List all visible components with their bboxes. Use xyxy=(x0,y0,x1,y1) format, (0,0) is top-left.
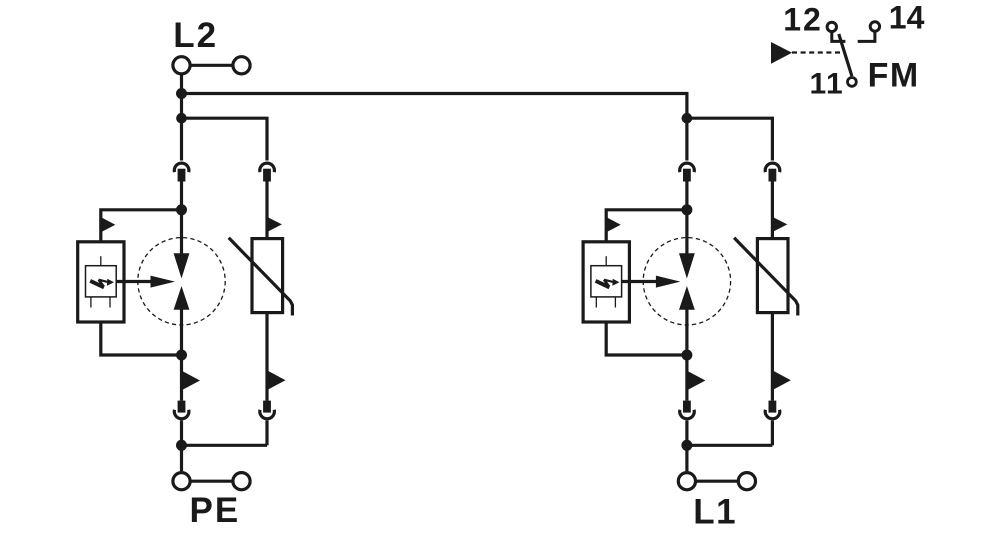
svg-text:14: 14 xyxy=(889,0,925,36)
svg-text:L2: L2 xyxy=(173,16,218,55)
svg-text:12: 12 xyxy=(783,2,823,38)
svg-text:L1: L1 xyxy=(693,492,737,531)
svg-text:11: 11 xyxy=(810,67,845,100)
svg-text:FM: FM xyxy=(868,56,920,94)
svg-text:PE: PE xyxy=(190,491,241,530)
